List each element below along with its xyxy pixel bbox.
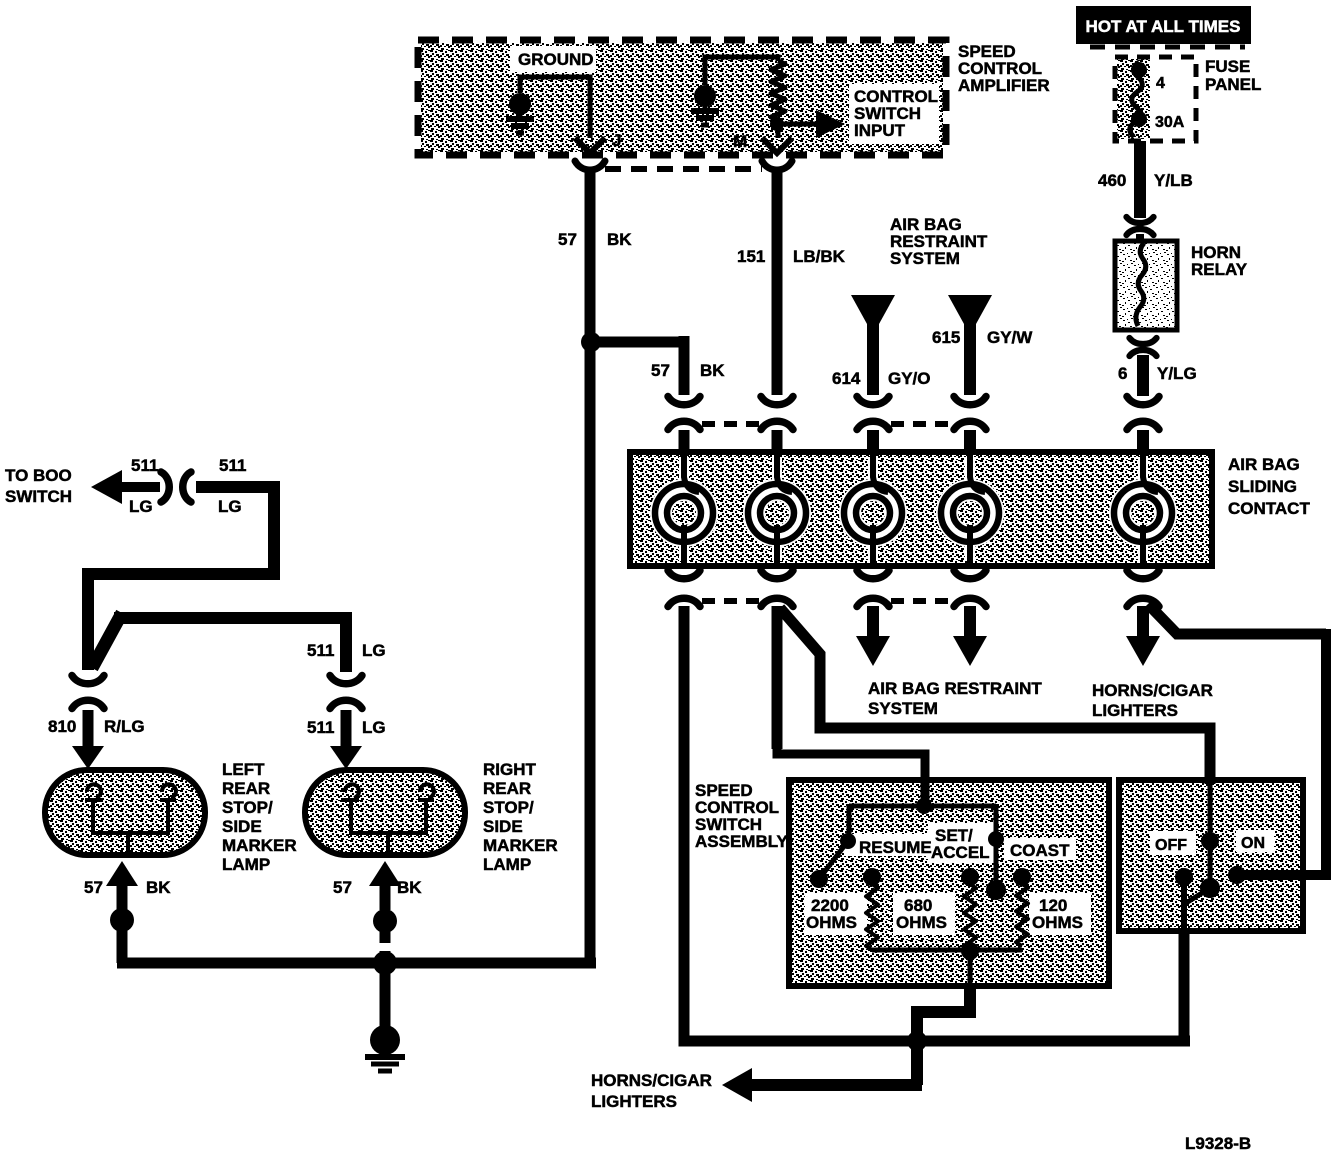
svg-text:GY/O: GY/O xyxy=(888,369,931,388)
svg-text:FUSE: FUSE xyxy=(1205,57,1250,76)
svg-text:ASSEMBLY: ASSEMBLY xyxy=(695,832,789,851)
svg-text:CONTACT: CONTACT xyxy=(1228,499,1310,518)
svg-text:460: 460 xyxy=(1098,171,1126,190)
svg-text:TO BOO: TO BOO xyxy=(5,466,72,485)
svg-text:SLIDING: SLIDING xyxy=(1228,477,1297,496)
svg-text:LAMP: LAMP xyxy=(222,855,270,874)
svg-text:M: M xyxy=(733,132,747,151)
svg-text:30A: 30A xyxy=(1155,114,1185,131)
svg-text:ON: ON xyxy=(1241,835,1265,852)
svg-text:J: J xyxy=(612,131,621,150)
svg-text:Y/LB: Y/LB xyxy=(1154,171,1193,190)
svg-text:OHMS: OHMS xyxy=(806,913,857,932)
svg-text:614: 614 xyxy=(832,369,861,388)
svg-text:BK: BK xyxy=(397,878,422,897)
svg-text:810: 810 xyxy=(48,717,76,736)
svg-text:LAMP: LAMP xyxy=(483,855,531,874)
svg-text:511: 511 xyxy=(131,456,158,475)
svg-text:SIDE: SIDE xyxy=(222,817,262,836)
svg-text:LEFT: LEFT xyxy=(222,760,265,779)
svg-text:LG: LG xyxy=(129,497,153,516)
svg-text:SWITCH: SWITCH xyxy=(5,487,72,506)
svg-text:LIGHTERS: LIGHTERS xyxy=(591,1092,677,1111)
svg-text:OHMS: OHMS xyxy=(896,913,947,932)
svg-text:STOP/: STOP/ xyxy=(483,798,534,817)
svg-text:STOP/: STOP/ xyxy=(222,798,273,817)
svg-text:57: 57 xyxy=(558,230,577,249)
svg-text:57: 57 xyxy=(333,878,352,897)
svg-text:OFF: OFF xyxy=(1155,837,1187,854)
svg-text:R/LG: R/LG xyxy=(104,717,145,736)
svg-text:6: 6 xyxy=(1118,364,1127,383)
svg-text:LB/BK: LB/BK xyxy=(793,247,846,266)
svg-text:HORNS/CIGAR: HORNS/CIGAR xyxy=(1092,681,1213,700)
svg-text:LG: LG xyxy=(362,641,386,660)
svg-text:COAST: COAST xyxy=(1010,841,1070,860)
svg-text:RELAY: RELAY xyxy=(1191,260,1248,279)
svg-text:SYSTEM: SYSTEM xyxy=(890,249,960,268)
svg-text:REAR: REAR xyxy=(483,779,531,798)
svg-text:INPUT: INPUT xyxy=(854,121,906,140)
svg-text:Y/LG: Y/LG xyxy=(1157,364,1197,383)
svg-text:AMPLIFIER: AMPLIFIER xyxy=(958,76,1050,95)
svg-text:GROUND: GROUND xyxy=(518,50,594,69)
svg-text:RESUME: RESUME xyxy=(859,838,932,857)
svg-text:L9328-B: L9328-B xyxy=(1185,1134,1251,1153)
svg-text:MARKER: MARKER xyxy=(222,836,297,855)
svg-text:BK: BK xyxy=(146,878,171,897)
svg-text:RIGHT: RIGHT xyxy=(483,760,537,779)
svg-text:SYSTEM: SYSTEM xyxy=(868,699,938,718)
svg-text:LG: LG xyxy=(218,497,242,516)
svg-text:ACCEL: ACCEL xyxy=(931,843,990,862)
svg-text:511: 511 xyxy=(307,718,334,737)
svg-text:AIR BAG: AIR BAG xyxy=(1228,455,1300,474)
svg-text:57: 57 xyxy=(84,878,103,897)
svg-text:MARKER: MARKER xyxy=(483,836,558,855)
svg-text:HORNS/CIGAR: HORNS/CIGAR xyxy=(591,1071,712,1090)
svg-text:PANEL: PANEL xyxy=(1205,75,1261,94)
svg-text:4: 4 xyxy=(1156,75,1165,92)
svg-text:BK: BK xyxy=(700,361,725,380)
svg-text:LIGHTERS: LIGHTERS xyxy=(1092,701,1178,720)
svg-text:511: 511 xyxy=(219,456,246,475)
svg-text:151: 151 xyxy=(737,247,765,266)
svg-text:GY/W: GY/W xyxy=(987,328,1033,347)
svg-text:LG: LG xyxy=(362,718,386,737)
svg-text:AIR BAG RESTRAINT: AIR BAG RESTRAINT xyxy=(868,679,1042,698)
svg-text:511: 511 xyxy=(307,641,334,660)
svg-text:615: 615 xyxy=(932,328,960,347)
svg-text:57: 57 xyxy=(651,361,670,380)
svg-text:REAR: REAR xyxy=(222,779,270,798)
svg-text:HOT AT ALL TIMES: HOT AT ALL TIMES xyxy=(1086,17,1241,36)
svg-text:OHMS: OHMS xyxy=(1032,913,1083,932)
svg-text:SIDE: SIDE xyxy=(483,817,523,836)
svg-text:BK: BK xyxy=(607,230,632,249)
